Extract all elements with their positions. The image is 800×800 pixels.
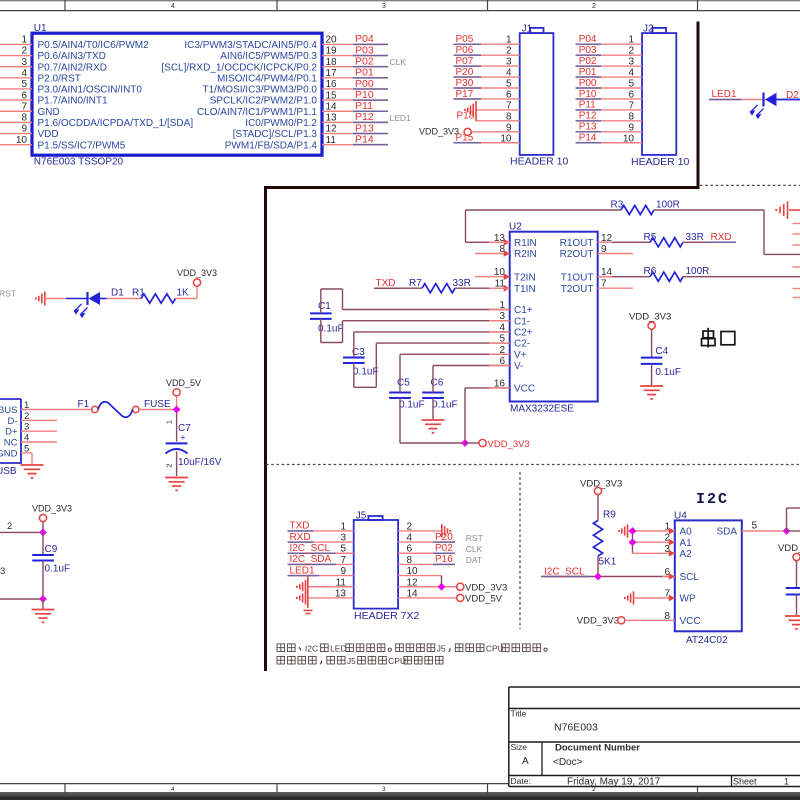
svg-text:R2OUT: R2OUT <box>560 249 594 260</box>
net label P10 <box>353 99 388 101</box>
svg-text:P02: P02 <box>579 56 597 67</box>
mcu U1 pin 16 wire (right) net P00 <box>322 88 388 90</box>
wire F1 to C7/VDD_5V <box>139 409 177 411</box>
svg-text:P18: P18 <box>457 111 475 122</box>
svg-text:T2OUT: T2OUT <box>561 284 594 295</box>
svg-text:T1OUT: T1OUT <box>561 272 594 283</box>
svg-text:LED: LED <box>330 644 347 654</box>
svg-text:16: 16 <box>326 79 338 90</box>
svg-text:P12: P12 <box>579 111 597 122</box>
net label P14 <box>353 144 388 146</box>
svg-text:RST: RST <box>466 533 483 543</box>
ground at J5 pins 11/13 <box>307 576 309 608</box>
header J2 pin 2 wire net P03 <box>577 54 643 56</box>
svg-text:20: 20 <box>326 35 338 46</box>
header J1 notch <box>530 28 544 33</box>
mcu U1 pin 9 wire (left) <box>0 133 32 135</box>
junction VCC/C5/VDD_3V3 <box>461 439 469 447</box>
svg-text:4: 4 <box>506 68 512 79</box>
svg-text:4: 4 <box>21 68 27 79</box>
svg-text:T1IN: T1IN <box>514 284 536 295</box>
svg-text:P10: P10 <box>579 89 597 100</box>
svg-text:7: 7 <box>21 101 27 112</box>
svg-text:VBUS: VBUS <box>0 405 18 416</box>
svg-text:3: 3 <box>382 786 386 793</box>
resistor R5 33R net RXD <box>598 241 650 243</box>
mcu U1 box <box>32 33 322 155</box>
wire J5 pin10 to pin12 <box>398 575 441 577</box>
svg-text:A1: A1 <box>680 538 693 549</box>
led diode D1 <box>66 298 88 300</box>
svg-text:R1: R1 <box>132 288 145 299</box>
power VDD_3V3 at J5 <box>457 583 464 590</box>
net label P15 <box>454 142 482 144</box>
svg-text:P0.7/AIN2/RXD: P0.7/AIN2/RXD <box>38 62 107 73</box>
svg-text:7: 7 <box>506 100 512 111</box>
ic U2 box <box>510 232 598 402</box>
svg-text:P02: P02 <box>435 543 453 554</box>
svg-text:VDD_3V3: VDD_3V3 <box>177 268 217 278</box>
ground below C6 <box>432 398 434 419</box>
svg-text:J5: J5 <box>437 644 446 654</box>
ground at U4 WP <box>633 591 635 604</box>
net label P04 <box>576 43 602 45</box>
power VDD_5V at J5 <box>457 594 464 601</box>
svg-text:T1/MOSI/IC3/PWM3/P0.0: T1/MOSI/IC3/PWM3/P0.0 <box>203 85 318 96</box>
svg-text:0.1uF: 0.1uF <box>353 367 379 378</box>
svg-text:GND: GND <box>0 448 18 459</box>
net label P13 <box>353 133 388 135</box>
svg-text:VDD_5V: VDD_5V <box>166 378 201 388</box>
svg-text:J5: J5 <box>347 656 356 666</box>
header J2 pin 6 wire net P10 <box>577 98 643 100</box>
svg-text:C5: C5 <box>397 378 410 389</box>
svg-text:VCC: VCC <box>514 384 535 395</box>
svg-text:3: 3 <box>506 57 512 68</box>
svg-text:D-: D- <box>7 416 17 427</box>
wire A1 <box>633 541 675 543</box>
wire C3 top to pin4 C2+ <box>353 332 355 358</box>
svg-text:HEADER 7X2: HEADER 7X2 <box>354 610 420 622</box>
svg-text:P3.0/AIN1/OSCIN/INT0: P3.0/AIN1/OSCIN/INT0 <box>38 85 143 96</box>
svg-text:7: 7 <box>628 100 634 111</box>
junction SDA <box>783 527 791 535</box>
mcu U1 pin 13 wire (right) net P12 <box>322 121 388 123</box>
svg-text:C1: C1 <box>318 301 331 312</box>
header J2 box <box>642 33 676 155</box>
svg-text:P17: P17 <box>456 89 474 100</box>
svg-text:6: 6 <box>21 90 27 101</box>
svg-text:8: 8 <box>506 111 512 122</box>
svg-text:9: 9 <box>21 124 27 135</box>
svg-text:Sheet: Sheet <box>733 777 757 787</box>
svg-text:4: 4 <box>171 3 175 10</box>
svg-text:RXD: RXD <box>711 232 732 243</box>
svg-text:I2C_SCL: I2C_SCL <box>544 566 585 577</box>
svg-text:2: 2 <box>628 46 634 57</box>
svg-text:LED1: LED1 <box>390 113 412 123</box>
svg-text:2: 2 <box>21 46 27 57</box>
svg-text:TXD: TXD <box>376 278 396 289</box>
svg-text:0.1uF: 0.1uF <box>655 367 681 378</box>
svg-text:HEADER 10: HEADER 10 <box>631 156 690 168</box>
svg-text:MAX3232ESE: MAX3232ESE <box>510 404 574 415</box>
junction VDD_3V3/C9 <box>39 529 47 537</box>
section divider dashed (below serial) <box>266 464 800 466</box>
svg-text:C9: C9 <box>45 544 58 555</box>
svg-text:5: 5 <box>21 79 27 90</box>
svg-text:VDD_3V3: VDD_3V3 <box>580 479 622 490</box>
svg-text:A0: A0 <box>680 527 693 538</box>
svg-text:11: 11 <box>326 135 337 146</box>
wire A0 <box>633 530 675 532</box>
svg-text:4: 4 <box>628 68 634 79</box>
svg-text:10: 10 <box>500 133 512 144</box>
svg-text:10: 10 <box>16 135 28 146</box>
svg-text:MISO/IC4/PWM4/P0.1: MISO/IC4/PWM4/P0.1 <box>217 73 317 84</box>
pin stub T2IN <box>475 276 510 278</box>
svg-text:C4: C4 <box>655 346 668 357</box>
header J1 pin 6 wire <box>455 98 520 100</box>
net label P00 <box>353 88 388 90</box>
svg-text:P2.0/RST: P2.0/RST <box>38 73 81 84</box>
svg-text:VDD_3V3: VDD_3V3 <box>419 126 459 136</box>
svg-text:12: 12 <box>326 124 338 135</box>
svg-text:D+: D+ <box>5 427 18 438</box>
mcu U1 pin 10 wire (left) <box>0 144 32 146</box>
svg-text:D2: D2 <box>786 90 799 101</box>
svg-text:Date:: Date: <box>511 776 531 786</box>
svg-text:U2: U2 <box>509 222 522 233</box>
svg-text:4: 4 <box>171 786 175 793</box>
svg-text:U4: U4 <box>674 510 687 521</box>
svg-text:P0.5/AIN4/T0/IC6/PWM2: P0.5/AIN4/T0/IC6/PWM2 <box>38 40 150 51</box>
svg-text:AIN6/IC5/PWM5/P0.3: AIN6/IC5/PWM5/P0.3 <box>220 51 317 62</box>
svg-text:VDD_3V3: VDD_3V3 <box>577 616 619 627</box>
net label P00 <box>576 87 602 89</box>
wire R1IN from R3 <box>466 241 510 243</box>
wire from regulator pin 2 <box>0 531 43 533</box>
svg-text:17: 17 <box>326 68 338 79</box>
net label P11 <box>576 109 602 111</box>
note text line2 (chinese) <box>277 656 285 664</box>
svg-text:0.1uF: 0.1uF <box>318 324 344 335</box>
wire J5 pin12 to VDD_3V3 <box>398 586 457 588</box>
svg-text:R2IN: R2IN <box>514 249 537 260</box>
svg-text:Title: Title <box>511 709 527 719</box>
svg-text:USB: USB <box>0 466 17 477</box>
svg-text:P03: P03 <box>579 45 597 56</box>
svg-text:8: 8 <box>628 111 634 122</box>
svg-text:R9: R9 <box>603 510 616 521</box>
svg-text:A: A <box>522 756 529 767</box>
ground sideways at DB9 <box>787 201 789 219</box>
svg-text:CPU: CPU <box>388 656 406 666</box>
capacitor C7 10uF/16V <box>176 410 178 442</box>
svg-text:P00: P00 <box>579 78 597 89</box>
ground below C9 <box>42 599 44 609</box>
header J2 pin 3 wire net P02 <box>577 65 643 67</box>
svg-text:CLK: CLK <box>466 544 483 554</box>
svg-text:DAT: DAT <box>466 555 482 565</box>
net label P12 <box>353 121 388 123</box>
svg-text:VCC: VCC <box>680 616 701 627</box>
svg-text:C2-: C2- <box>514 339 530 350</box>
header J1 pin 2 wire <box>455 54 520 56</box>
header J2 pin 9 wire net P13 <box>577 131 643 133</box>
net label P17 <box>454 98 482 100</box>
svg-text:5K1: 5K1 <box>599 557 617 568</box>
svg-text:P13: P13 <box>579 122 597 133</box>
svg-text:C2+: C2+ <box>514 328 533 339</box>
svg-text:J5: J5 <box>356 511 367 522</box>
svg-text:Document Number: Document Number <box>555 743 640 754</box>
svg-text:33R: 33R <box>453 278 471 289</box>
mcu U1 pin 8 wire (left) <box>0 121 32 123</box>
svg-text:C1+: C1+ <box>514 305 533 316</box>
svg-text:100R: 100R <box>656 200 680 211</box>
ic U4 box <box>675 520 742 631</box>
header J1 pin 3 wire <box>455 65 520 67</box>
svg-text:J1: J1 <box>522 23 533 34</box>
net label P12 <box>576 120 602 122</box>
header J2 pin 7 wire net P11 <box>577 109 643 111</box>
svg-text:10: 10 <box>623 133 635 144</box>
svg-text:2: 2 <box>506 46 512 57</box>
svg-text:VDD_: VDD_ <box>778 543 800 554</box>
net label P30 <box>454 87 482 89</box>
svg-text:14: 14 <box>326 101 338 112</box>
svg-text:P1.7/AIN0/INT1: P1.7/AIN0/INT1 <box>38 96 108 107</box>
ground at J5 pin2 <box>398 530 442 532</box>
svg-text:2: 2 <box>165 463 174 467</box>
svg-text:Size: Size <box>511 742 528 752</box>
svg-text:3: 3 <box>0 566 5 577</box>
net label P02 <box>353 66 388 68</box>
svg-text:[SCL]/RXD_1/OCDCK/ICPCK/P0.2: [SCL]/RXD_1/OCDCK/ICPCK/P0.2 <box>161 62 317 73</box>
svg-text:13: 13 <box>326 113 338 124</box>
net label P06 <box>454 54 482 56</box>
net label P03 <box>576 54 602 56</box>
svg-text:1K: 1K <box>177 288 190 299</box>
svg-text:R7: R7 <box>409 278 422 289</box>
svg-text:3: 3 <box>21 57 27 68</box>
svg-text:0.1uF: 0.1uF <box>399 400 425 411</box>
usb connector J box <box>0 399 21 463</box>
wire C6 top to pin6 V- <box>432 366 434 393</box>
svg-text:RST: RST <box>0 289 16 299</box>
svg-text:10uF/16V: 10uF/16V <box>178 457 222 468</box>
svg-text:VDD_5V: VDD_5V <box>465 593 503 604</box>
svg-text:RXD: RXD <box>290 532 311 543</box>
header J1 pin 9 wire <box>471 131 519 133</box>
svg-text:N76E003: N76E003 <box>554 722 598 734</box>
net label P14 <box>576 142 602 144</box>
pin stub R2OUT <box>598 253 633 255</box>
svg-text:2: 2 <box>592 3 596 10</box>
svg-text:FUSE: FUSE <box>144 399 171 410</box>
svg-text:GND: GND <box>38 107 60 118</box>
svg-text:R1IN: R1IN <box>514 238 537 249</box>
svg-text:CLO/AIN7/IC1/PWM1/P1.1: CLO/AIN7/IC1/PWM1/P1.1 <box>197 107 317 118</box>
net label P02 <box>576 65 602 67</box>
wire C1 bottom to pin3 C1- <box>321 342 343 344</box>
net label P11 <box>353 110 388 112</box>
svg-text:1: 1 <box>628 35 634 46</box>
ground below C7 <box>165 477 188 479</box>
svg-text:P06: P06 <box>456 45 474 56</box>
svg-text:18: 18 <box>326 57 338 68</box>
svg-text:9: 9 <box>628 122 634 133</box>
net label P03 <box>353 55 388 57</box>
wire net I2C_SCL <box>542 576 675 578</box>
ground below C4 <box>640 385 663 387</box>
mcu U1 pin 4 wire (left) <box>0 77 32 79</box>
svg-text:VDD_3V3: VDD_3V3 <box>465 582 507 593</box>
svg-text:VDD_3V3: VDD_3V3 <box>32 504 72 514</box>
svg-text:1: 1 <box>784 777 789 787</box>
svg-text:VDD_3V3: VDD_3V3 <box>629 311 671 322</box>
svg-text:T2IN: T2IN <box>514 272 536 283</box>
svg-text:C1-: C1- <box>514 316 530 327</box>
svg-text:IC0/PWM0/P1.2: IC0/PWM0/P1.2 <box>245 118 317 129</box>
header J1 pin 1 wire <box>455 43 520 45</box>
wire from regulator pin 3 <box>0 598 43 600</box>
svg-text:3: 3 <box>382 3 386 10</box>
svg-text:1: 1 <box>165 420 174 424</box>
svg-text:P1.6/OCDDA/ICPDA/TXD_1/[SDA]: P1.6/OCDDA/ICPDA/TXD_1/[SDA] <box>38 118 194 129</box>
junction C9/gnd <box>39 595 47 603</box>
svg-text:0.1uF: 0.1uF <box>45 564 71 575</box>
header J2 pin 5 wire net P00 <box>577 87 643 89</box>
DB9 pin stubs at right edge <box>793 223 800 225</box>
svg-text:3: 3 <box>628 57 634 68</box>
svg-text:SCL: SCL <box>680 572 700 583</box>
svg-text:VDD: VDD <box>38 129 59 140</box>
usb GND wire + ground <box>21 452 32 454</box>
power VDD_3V3 at R1 <box>196 286 198 298</box>
svg-text:NC: NC <box>4 437 18 448</box>
svg-text:P14: P14 <box>579 133 597 144</box>
net label P01 <box>353 77 388 79</box>
pin stub T2OUT <box>598 287 633 289</box>
net label P13 <box>576 131 602 133</box>
section divider dashed (LED area) <box>700 184 800 186</box>
wire SDA net <box>742 530 787 532</box>
section divider dashed vertical (J5 / I2C) <box>519 472 521 629</box>
header J1 pin 7 wire <box>476 109 520 111</box>
mcu U1 pin 6 wire (left) <box>0 99 32 101</box>
svg-text:J2: J2 <box>643 23 654 34</box>
mcu U1 pin 2 wire (left) <box>0 55 32 57</box>
svg-text:V-: V- <box>514 361 523 372</box>
svg-text:D1: D1 <box>111 288 124 299</box>
mcu U1 pin 1 wire (left) <box>0 43 32 45</box>
wire A2 <box>633 552 675 554</box>
svg-text:Friday, May 19, 2017: Friday, May 19, 2017 <box>567 777 661 788</box>
mcu U1 pin 12 wire (right) net P13 <box>322 133 388 135</box>
wire RST to D1 <box>45 298 66 300</box>
svg-text:19: 19 <box>326 46 338 57</box>
pin stub R2IN <box>475 253 510 255</box>
net label P20 <box>454 76 482 78</box>
svg-text:IC3/PWM3/STADC/AIN5/P0.4: IC3/PWM3/STADC/AIN5/P0.4 <box>184 40 317 51</box>
svg-text:TXD: TXD <box>290 521 310 532</box>
svg-text:6: 6 <box>628 89 634 100</box>
mcu U1 pin 20 wire (right) net P04 <box>322 43 388 45</box>
power VDD_3V3 (serial) <box>479 439 486 446</box>
wire R6 to DB9 <box>683 276 800 278</box>
page bottom border zone strip <box>0 783 509 785</box>
svg-text:<Doc>: <Doc> <box>553 757 583 768</box>
svg-text:CLK: CLK <box>390 57 407 67</box>
header J1 box <box>520 33 554 155</box>
label serial port chinese (vector) <box>702 328 735 348</box>
net label P10 <box>576 98 602 100</box>
svg-text:8: 8 <box>21 113 27 124</box>
wire J5 pin14 to VDD_5V <box>398 597 457 599</box>
title block <box>509 686 800 688</box>
svg-text:HEADER 10: HEADER 10 <box>510 155 569 167</box>
header J1 pin 5 wire <box>455 87 520 89</box>
header J1 pin 8 wire <box>476 120 520 122</box>
svg-text:I2C_SDA: I2C_SDA <box>290 554 332 565</box>
svg-text:P11: P11 <box>579 100 596 111</box>
header J2 pin 4 wire net P01 <box>577 76 643 78</box>
svg-text:N76E003 TSSOP20: N76E003 TSSOP20 <box>34 157 124 168</box>
svg-text:5: 5 <box>628 79 634 90</box>
mcu U1 pin 14 wire (right) net P11 <box>322 110 388 112</box>
svg-text:A2: A2 <box>680 549 693 560</box>
net label P04 <box>353 43 388 45</box>
svg-text:I2C: I2C <box>305 644 318 654</box>
mcu U1 pin 17 wire (right) net P01 <box>322 77 388 79</box>
svg-text:P1.5/SS/IC7/PWM5: P1.5/SS/IC7/PWM5 <box>38 140 126 151</box>
wire usb VBUS to F1 <box>21 409 92 411</box>
ground at D1 <box>44 292 46 306</box>
svg-text:33R: 33R <box>686 232 704 243</box>
svg-text:1: 1 <box>21 35 27 46</box>
mcu U1 pin 3 wire (left) <box>0 66 32 68</box>
page top border zone strip <box>0 0 800 2</box>
svg-text:P14: P14 <box>355 133 374 145</box>
svg-text:P0.6/AIN3/TXD: P0.6/AIN3/TXD <box>38 51 106 62</box>
header J5 notch <box>368 516 382 520</box>
header J5 box <box>354 520 398 609</box>
svg-text:15: 15 <box>326 90 338 101</box>
net label P05 <box>454 43 482 45</box>
svg-text:U1: U1 <box>34 23 47 34</box>
net label P01 <box>576 76 602 78</box>
svg-text:2: 2 <box>7 521 12 532</box>
resistor R3 100R <box>466 209 622 211</box>
mcu U1 pin 19 wire (right) net P03 <box>322 55 388 57</box>
wire C5 top to pin2 V+ <box>399 354 401 392</box>
svg-text:1: 1 <box>506 35 512 46</box>
svg-text:[STADC]/SCL/P1.3: [STADC]/SCL/P1.3 <box>233 129 318 140</box>
svg-text:LED1: LED1 <box>712 89 737 100</box>
svg-text:5: 5 <box>752 521 758 532</box>
mcu U1 pin 18 wire (right) net P02 <box>322 66 388 68</box>
capacitor C9 0.1uF <box>42 532 44 555</box>
wire R3 to DB9 <box>654 209 764 211</box>
ground on J1 pin7 <box>475 101 477 121</box>
svg-text:P30: P30 <box>456 78 474 89</box>
header J2 pin 1 wire net P04 <box>577 43 643 45</box>
svg-text:6: 6 <box>506 89 512 100</box>
resistor R1 1K <box>107 298 142 300</box>
svg-text:I2C_SCL: I2C_SCL <box>290 543 331 554</box>
